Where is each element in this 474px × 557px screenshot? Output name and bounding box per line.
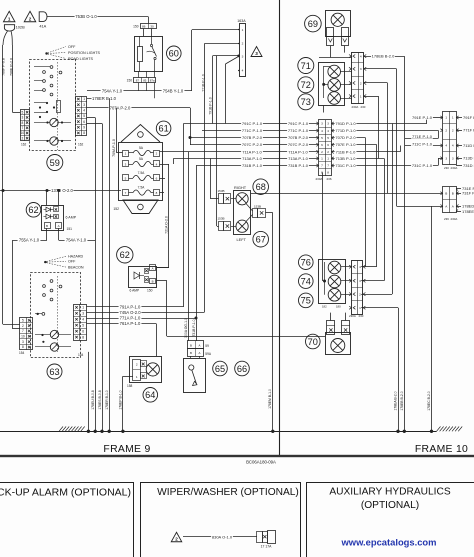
svg-text:2: 2 [445, 129, 447, 133]
svg-text:178ED B-2.0: 178ED B-2.0 [462, 204, 474, 209]
svg-text:7: 7 [327, 164, 329, 168]
svg-text:AUXILIARY HYDRAULICS: AUXILIARY HYDRAULICS [329, 487, 451, 498]
svg-text:10: 10 [21, 335, 25, 339]
svg-text:711B P-1.0: 711B P-1.0 [336, 149, 356, 154]
svg-text:2: 2 [359, 292, 361, 296]
svg-text:731F P-1.0: 731F P-1.0 [462, 191, 474, 196]
svg-text:2: 2 [22, 324, 24, 328]
svg-text:A: A [199, 351, 201, 355]
svg-text:ROAD LIGHTS: ROAD LIGHTS [68, 57, 94, 61]
svg-text:62: 62 [120, 250, 130, 260]
svg-text:236: 236 [327, 177, 332, 181]
svg-text:150: 150 [133, 24, 139, 28]
svg-text:230: 230 [359, 314, 364, 318]
svg-text:731B P-1.0: 731B P-1.0 [242, 163, 263, 168]
svg-text:59: 59 [205, 344, 209, 348]
svg-text:1: 1 [452, 116, 454, 120]
svg-text:178ES B-0.8: 178ES B-0.8 [98, 390, 102, 409]
svg-text:731B P-1.0: 731B P-1.0 [192, 319, 196, 336]
svg-text:709A P-1.0: 709A P-1.0 [112, 139, 116, 157]
svg-text:3: 3 [359, 279, 361, 283]
svg-text:2: 2 [29, 16, 32, 21]
svg-text:791C P-1.0: 791C P-1.0 [288, 121, 309, 126]
svg-text:731B P-1.0: 731B P-1.0 [288, 163, 309, 168]
svg-text:5: 5 [327, 136, 329, 140]
svg-text:6: 6 [83, 120, 85, 124]
svg-text:761A P-1.0: 761A P-1.0 [120, 321, 141, 326]
svg-text:771B P-1.0: 771B P-1.0 [201, 74, 205, 92]
svg-text:711C P-1.0: 711C P-1.0 [412, 142, 433, 147]
svg-text:230A: 230A [352, 105, 359, 109]
svg-text:707E P-1.0: 707E P-1.0 [335, 142, 356, 147]
svg-text:154: 154 [78, 353, 84, 357]
svg-text:5: 5 [22, 318, 24, 322]
svg-text:1: 1 [445, 116, 447, 120]
svg-text:FRAME 10: FRAME 10 [415, 444, 468, 455]
svg-text:707C P-2.0: 707C P-2.0 [288, 142, 309, 147]
svg-text:153B: 153B [218, 217, 225, 221]
svg-text:1: 1 [82, 306, 84, 310]
svg-text:713A P-1.0: 713A P-1.0 [242, 156, 263, 161]
svg-text:B: B [452, 192, 454, 196]
svg-text:151: 151 [67, 227, 73, 231]
svg-text:70: 70 [308, 337, 318, 347]
svg-text:BACK-UP ALARM (OPTIONAL): BACK-UP ALARM (OPTIONAL) [0, 487, 131, 499]
svg-text:162: 162 [78, 143, 84, 147]
svg-text:6: 6 [321, 143, 323, 147]
svg-text:9: 9 [83, 125, 85, 129]
svg-text:1: 1 [321, 157, 323, 161]
svg-text:(OPTIONAL): (OPTIONAL) [361, 500, 419, 511]
svg-text:707B P-2.0: 707B P-2.0 [242, 135, 263, 140]
svg-text:152: 152 [113, 207, 119, 211]
svg-text:178EE B-2.0: 178EE B-2.0 [462, 209, 474, 214]
svg-text:41A: 41A [39, 23, 46, 28]
svg-text:75: 75 [301, 296, 311, 306]
svg-text:7: 7 [321, 164, 323, 168]
svg-text:64: 64 [145, 390, 155, 400]
svg-text:8: 8 [83, 131, 85, 135]
svg-text:8: 8 [22, 345, 24, 349]
svg-text:711A P-1.0: 711A P-1.0 [242, 149, 262, 154]
svg-text:830A O-1.0: 830A O-1.0 [212, 534, 233, 539]
svg-text:85: 85 [143, 79, 147, 83]
svg-text:4: 4 [242, 69, 244, 73]
svg-text:300A OG-1.0: 300A OG-1.0 [184, 318, 188, 338]
svg-text:182: 182 [322, 305, 327, 309]
svg-text:102B: 102B [16, 25, 25, 30]
svg-text:3: 3 [445, 157, 447, 161]
svg-text:8: 8 [82, 335, 84, 339]
svg-text:230A: 230A [451, 166, 458, 170]
svg-text:158: 158 [127, 384, 133, 388]
svg-text:B: B [190, 343, 192, 347]
svg-text:721A O-2.0: 721A O-2.0 [164, 216, 168, 234]
svg-text:771C P-1.0: 771C P-1.0 [288, 128, 309, 133]
svg-text:4: 4 [452, 144, 454, 148]
svg-text:3: 3 [360, 67, 362, 71]
svg-text:5: 5 [321, 136, 323, 140]
svg-text:731C P-1.0: 731C P-1.0 [335, 163, 356, 168]
svg-text:59A: 59A [205, 352, 212, 356]
svg-text:LEFT: LEFT [237, 237, 247, 242]
svg-text:7: 7 [22, 329, 24, 333]
svg-text:713D P-1.0: 713D P-1.0 [463, 156, 474, 161]
svg-text:791A P-1.0: 791A P-1.0 [120, 305, 141, 310]
svg-text:706E P-2.0: 706E P-2.0 [9, 58, 13, 76]
svg-text:791E P-1.0: 791E P-1.0 [412, 115, 433, 120]
svg-text:178EU B-0.8: 178EU B-0.8 [91, 390, 95, 410]
svg-text:1: 1 [327, 157, 329, 161]
svg-text:3: 3 [22, 340, 24, 344]
svg-text:230A: 230A [451, 217, 458, 221]
svg-text:707C P-2.0: 707C P-2.0 [242, 142, 263, 147]
svg-text:BC06A180-09A: BC06A180-09A [246, 460, 276, 465]
svg-text:707A P-2.0: 707A P-2.0 [110, 105, 131, 110]
svg-text:RIGHT: RIGHT [234, 185, 247, 190]
svg-text:230A: 230A [349, 314, 356, 318]
svg-text:17 17A: 17 17A [261, 545, 272, 549]
svg-text:A: A [199, 343, 201, 347]
svg-text:69: 69 [308, 19, 318, 29]
svg-text:30: 30 [150, 24, 154, 28]
svg-text:2: 2 [321, 150, 323, 154]
svg-text:4: 4 [360, 54, 362, 58]
svg-text:754A Y-1.0: 754A Y-1.0 [66, 238, 87, 243]
svg-text:63: 63 [49, 367, 59, 377]
svg-text:OFF: OFF [68, 45, 76, 49]
svg-text:66: 66 [237, 364, 247, 374]
svg-text:6 AMP: 6 AMP [130, 289, 141, 293]
svg-text:4: 4 [82, 317, 84, 321]
svg-text:65: 65 [215, 364, 225, 374]
svg-text:755A Y-1.0: 755A Y-1.0 [19, 238, 40, 243]
svg-text:178EB B-2.0: 178EB B-2.0 [400, 391, 404, 410]
svg-text:4: 4 [359, 265, 361, 269]
svg-text:6 AMP: 6 AMP [66, 216, 77, 220]
svg-text:178ER B-1.0: 178ER B-1.0 [92, 96, 117, 101]
svg-text:2: 2 [360, 81, 362, 85]
svg-text:76: 76 [301, 258, 311, 268]
svg-text:1: 1 [360, 94, 362, 98]
svg-text:230: 230 [444, 166, 449, 170]
svg-text:www.epcatalogs.com: www.epcatalogs.com [341, 537, 437, 548]
svg-text:706F P-0.8: 706F P-0.8 [2, 58, 6, 76]
svg-text:2: 2 [242, 42, 244, 46]
svg-text:7.5A: 7.5A [138, 186, 146, 190]
svg-text:60: 60 [169, 49, 179, 59]
svg-text:5: 5 [83, 114, 85, 118]
svg-text:74: 74 [301, 276, 311, 286]
svg-text:3: 3 [82, 312, 84, 316]
svg-text:163A: 163A [237, 19, 246, 23]
svg-text:4: 4 [327, 129, 329, 133]
svg-text:753B O-1.0: 753B O-1.0 [75, 14, 97, 19]
svg-text:3: 3 [321, 122, 323, 126]
svg-text:713B P-1.0: 713B P-1.0 [335, 156, 356, 161]
svg-text:59: 59 [50, 158, 60, 168]
svg-text:HAZARD: HAZARD [68, 255, 83, 259]
svg-text:791D P-1.0: 791D P-1.0 [335, 121, 356, 126]
svg-text:BEACON: BEACON [68, 265, 84, 269]
svg-text:707B P-2.0: 707B P-2.0 [288, 135, 309, 140]
svg-text:2: 2 [175, 536, 178, 541]
svg-text:236: 236 [444, 217, 449, 221]
svg-text:3: 3 [21, 116, 23, 120]
svg-text:1: 1 [8, 16, 11, 21]
svg-text:62: 62 [28, 205, 38, 215]
svg-text:153B: 153B [254, 204, 261, 208]
svg-text:150: 150 [147, 289, 153, 293]
svg-text:FRAME 9: FRAME 9 [103, 444, 150, 455]
svg-text:67: 67 [256, 235, 266, 245]
svg-text:153B: 153B [218, 189, 225, 193]
svg-text:68: 68 [256, 182, 266, 192]
svg-text:86: 86 [142, 24, 146, 28]
svg-text:WIPER/WASHER (OPTIONAL): WIPER/WASHER (OPTIONAL) [157, 487, 299, 498]
svg-text:230A: 230A [316, 177, 323, 181]
svg-text:4: 4 [83, 109, 85, 113]
svg-text:87a: 87a [150, 79, 155, 83]
svg-text:178EB B-2.0: 178EB B-2.0 [372, 54, 395, 59]
svg-text:745A O-2.0: 745A O-2.0 [119, 310, 141, 315]
svg-text:178EP B-1.0: 178EP B-1.0 [119, 390, 123, 409]
svg-text:754A Y-1.0: 754A Y-1.0 [102, 89, 123, 94]
svg-text:5: 5 [21, 110, 23, 114]
svg-text:771A P-1.0: 771A P-1.0 [120, 316, 141, 321]
svg-text:B: B [152, 280, 154, 284]
svg-text:3: 3 [255, 51, 258, 56]
svg-text:6: 6 [327, 143, 329, 147]
svg-text:731C P-1.0: 731C P-1.0 [412, 163, 433, 168]
svg-text:180: 180 [336, 305, 341, 309]
svg-text:731D P-1.0: 731D P-1.0 [463, 163, 474, 168]
svg-text:178EA B-2.0: 178EA B-2.0 [394, 391, 398, 410]
svg-text:87: 87 [136, 79, 140, 83]
svg-text:10: 10 [21, 131, 25, 135]
svg-text:73: 73 [301, 97, 311, 107]
svg-text:713A P-1.0: 713A P-1.0 [288, 156, 309, 161]
svg-text:POSITION LIGHTS: POSITION LIGHTS [68, 51, 101, 55]
svg-text:162: 162 [21, 143, 27, 147]
svg-text:791C P-1.0: 791C P-1.0 [242, 121, 263, 126]
svg-text:150: 150 [127, 79, 133, 83]
svg-text:B: B [190, 351, 192, 355]
svg-text:3: 3 [83, 103, 85, 107]
svg-text:771D P-1.0: 771D P-1.0 [335, 128, 356, 133]
svg-text:A: A [152, 266, 154, 270]
svg-text:8: 8 [327, 171, 329, 175]
svg-text:137D O-2.0: 137D O-2.0 [51, 188, 73, 193]
svg-text:1: 1 [242, 28, 244, 32]
svg-text:1: 1 [359, 306, 361, 310]
svg-text:1: 1 [83, 97, 85, 101]
svg-text:2: 2 [327, 150, 329, 154]
svg-text:6: 6 [82, 329, 84, 333]
svg-text:711A P-1.0: 711A P-1.0 [288, 149, 308, 154]
svg-text:154: 154 [19, 351, 25, 355]
svg-text:4: 4 [445, 144, 447, 148]
svg-text:4: 4 [321, 129, 323, 133]
svg-text:72: 72 [301, 80, 311, 90]
svg-text:7: 7 [21, 126, 23, 130]
svg-text:3: 3 [242, 54, 244, 58]
svg-text:178EM B-1.0: 178EM B-1.0 [268, 389, 272, 409]
svg-text:2: 2 [452, 129, 454, 133]
svg-text:OFF: OFF [68, 260, 76, 264]
svg-text:771C P-1.0: 771C P-1.0 [242, 128, 263, 133]
svg-text:B: B [445, 192, 447, 196]
svg-text:5: 5 [82, 323, 84, 327]
svg-text:7.5A: 7.5A [138, 171, 146, 175]
svg-text:771E P-1.0: 771E P-1.0 [412, 134, 433, 139]
svg-text:711D P-1.0: 711D P-1.0 [463, 143, 474, 148]
svg-text:771F P-1.0: 771F P-1.0 [463, 128, 474, 133]
svg-text:3: 3 [452, 157, 454, 161]
svg-text:B: B [46, 224, 48, 228]
svg-text:791F P-1.0: 791F P-1.0 [463, 115, 474, 120]
svg-text:8: 8 [21, 121, 23, 125]
svg-text:A: A [58, 224, 60, 228]
svg-text:230: 230 [361, 105, 366, 109]
svg-text:3: 3 [327, 122, 329, 126]
svg-text:2: 2 [21, 136, 23, 140]
svg-text:791B P-1.0: 791B P-1.0 [208, 97, 212, 115]
svg-text:61: 61 [158, 124, 168, 134]
svg-text:707D P-2.0: 707D P-2.0 [335, 135, 356, 140]
svg-text:71: 71 [301, 61, 311, 71]
svg-text:178ER B-1.0: 178ER B-1.0 [105, 390, 109, 410]
svg-text:754B Y-1.0: 754B Y-1.0 [163, 89, 184, 94]
svg-text:178EC B-2.0: 178EC B-2.0 [427, 391, 431, 411]
